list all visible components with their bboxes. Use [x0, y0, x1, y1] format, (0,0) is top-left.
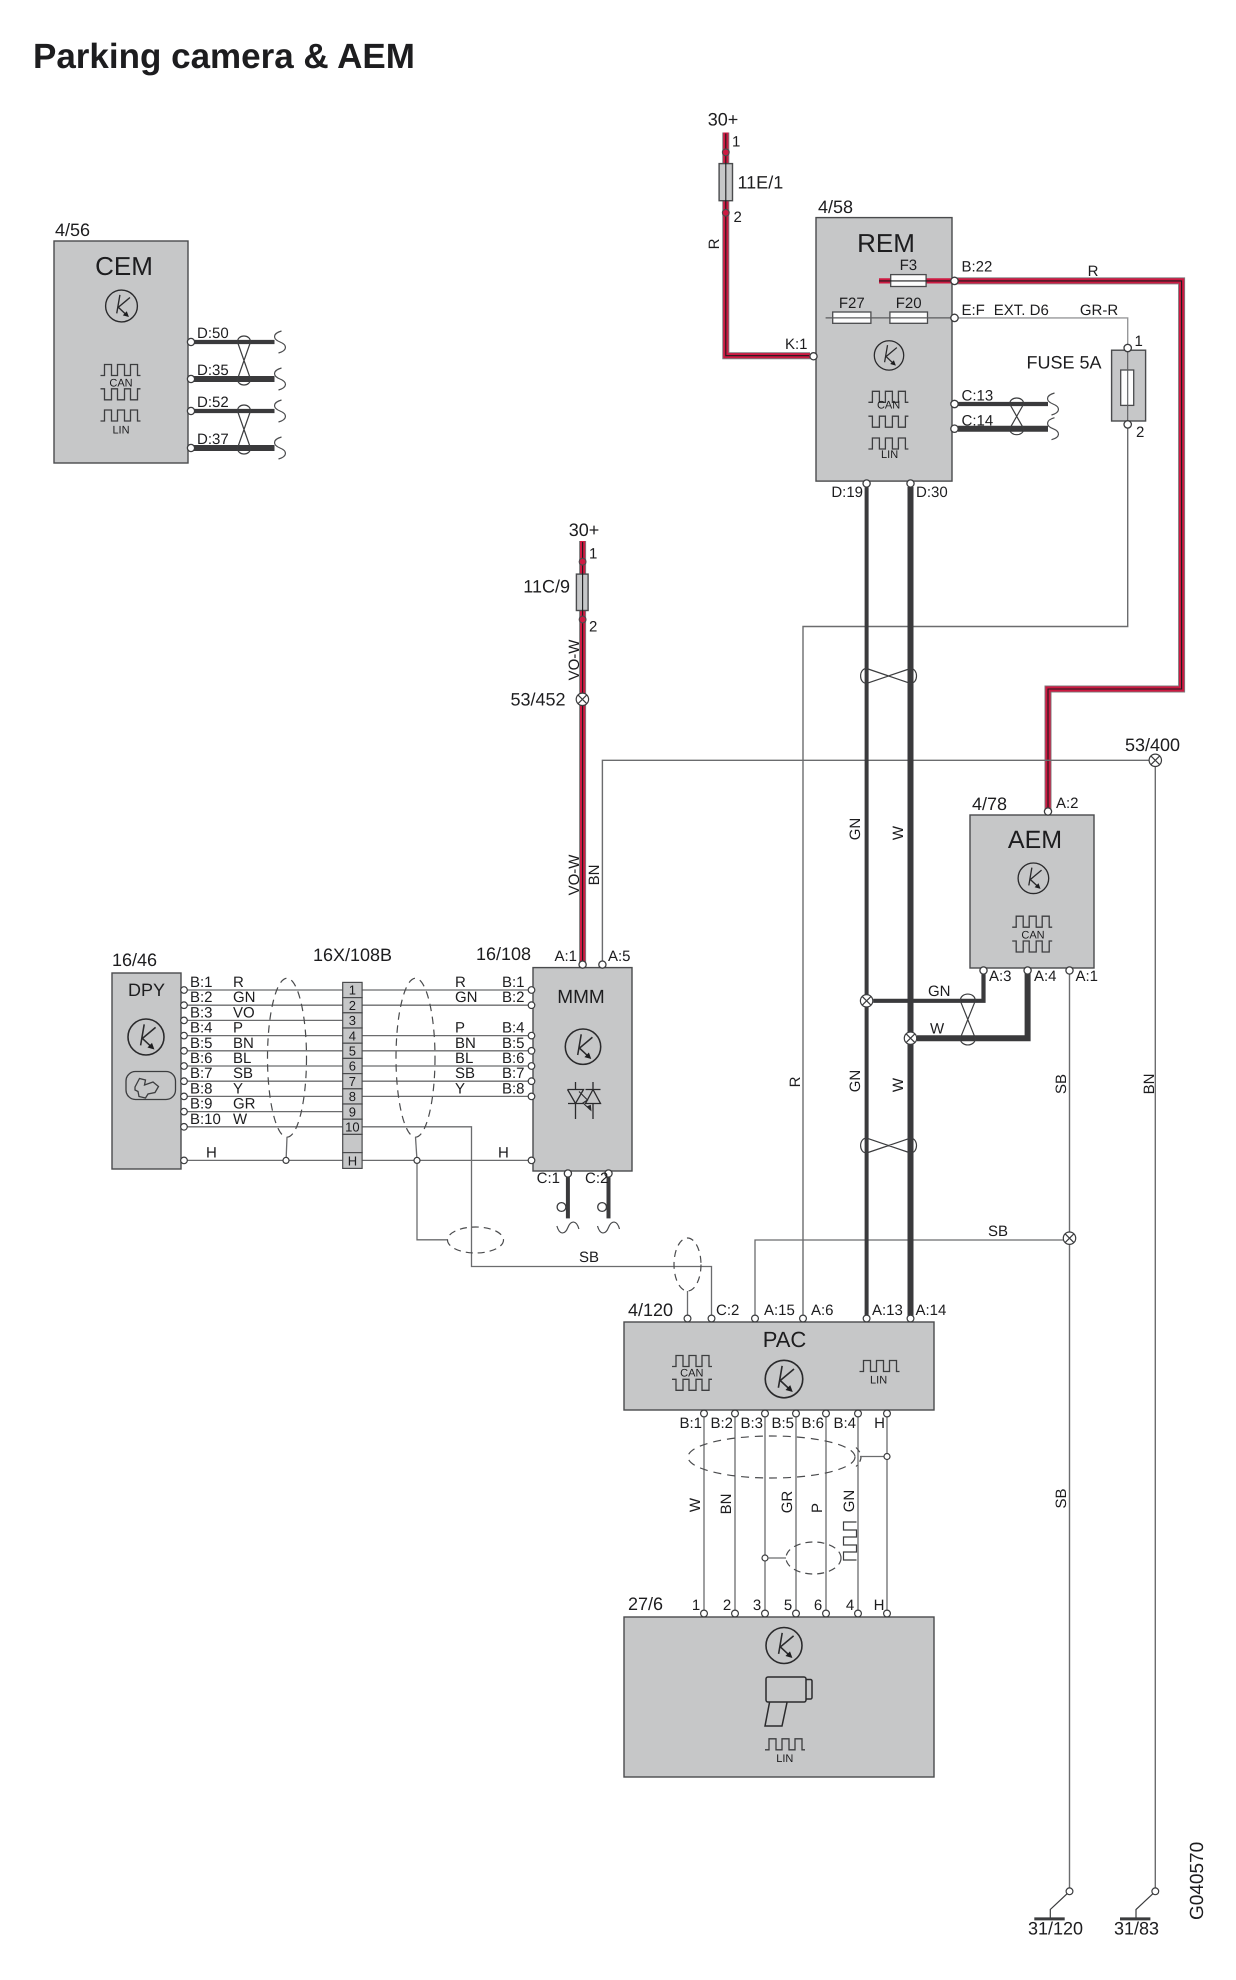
pin camera 5: [793, 1610, 800, 1617]
svg-text:R: R: [706, 238, 723, 249]
pin MMM C:1: [564, 1170, 571, 1177]
pin camera H: [884, 1610, 891, 1617]
pin camera 4: [855, 1610, 862, 1617]
pin camera 3: [762, 1610, 769, 1617]
control unit REM 4/58 box: [816, 218, 952, 482]
svg-text:B:2: B:2: [710, 1415, 733, 1432]
pin PAC B:1: [701, 1410, 708, 1417]
ground symbol 31/83: [1120, 1917, 1150, 1920]
parking camera control module PAC 4/120 box: [624, 1322, 934, 1410]
twisted-pair symbol GN/W (lower): [861, 1138, 917, 1153]
junction shield to H (right): [414, 1157, 420, 1163]
svg-text:4: 4: [846, 1597, 854, 1614]
cut mark C:1: [557, 1222, 579, 1233]
CEM control-unit symbol K: [106, 290, 138, 322]
pin REM C:14: [951, 425, 958, 432]
cut mark C:2: [598, 1222, 620, 1233]
pin 2 of fuse 11C/9 (red dot): [579, 616, 586, 623]
REM CAN waveform lower: [868, 416, 908, 427]
svg-text:B:3: B:3: [740, 1415, 763, 1432]
svg-text:3: 3: [753, 1597, 761, 1614]
svg-text:VO-W: VO-W: [566, 854, 583, 896]
pin PAC B:4: [855, 1410, 862, 1417]
wire DPY B:5 (BN) to connector 16X/108B: [187, 1050, 343, 1052]
svg-text:2: 2: [349, 998, 356, 1013]
svg-text:H: H: [348, 1153, 357, 1168]
svg-text:6: 6: [349, 1059, 356, 1074]
pin PAC A:13: [863, 1315, 870, 1322]
svg-text:F27: F27: [839, 295, 865, 312]
svg-text:4/78: 4/78: [972, 794, 1007, 814]
pin MMM B:7: [528, 1078, 535, 1085]
svg-text:AEM: AEM: [1008, 826, 1062, 854]
fuse F27 body: [833, 312, 871, 323]
wire H: DPY to 16X/108B to MMM: [187, 1159, 533, 1161]
wire DPY B:3 (VO) to connector 16X/108B: [187, 1019, 343, 1021]
pin PAC B:6: [823, 1410, 830, 1417]
wire DPY B:9 (GR) to connector 16X/108B: [187, 1111, 343, 1113]
wire core line through 11C/9 branch: [582, 542, 584, 962]
svg-text:A:2: A:2: [1056, 795, 1079, 812]
svg-text:FUSE 5A: FUSE 5A: [1027, 353, 1102, 373]
pin PAC H: [884, 1410, 891, 1417]
fuse F20 body: [890, 312, 928, 323]
wire PAC H to camera pin H: [886, 1413, 888, 1614]
twisted-pair symbol GN/W (upper): [861, 669, 917, 684]
svg-text:LIN: LIN: [881, 449, 898, 461]
audio module AEM 4/78 box: [970, 815, 1094, 968]
svg-text:2: 2: [734, 209, 742, 226]
svg-text:GN: GN: [847, 1070, 864, 1093]
wire H shield drain to grommet: [417, 1164, 448, 1240]
svg-text:C:13: C:13: [962, 388, 994, 405]
wire W trunk: REM D:30 to PAC A:14: [908, 487, 914, 1318]
svg-text:LIN: LIN: [870, 1375, 887, 1387]
svg-text:F20: F20: [896, 295, 922, 312]
svg-text:H: H: [498, 1144, 509, 1161]
svg-text:EXT. D6: EXT. D6: [994, 302, 1049, 319]
svg-text:2: 2: [589, 619, 597, 636]
shield drain tail (left): [285, 1137, 288, 1157]
control unit CEM 4/56 box: [54, 241, 188, 463]
svg-text:SB: SB: [1053, 1074, 1070, 1094]
fuse element line through F27 and F20: [826, 317, 954, 319]
svg-text:W: W: [930, 1021, 945, 1038]
wire EXT.D6 GR-R: REM E:F to FUSE 5A pin 1: [826, 318, 1128, 345]
svg-text:W: W: [233, 1111, 248, 1128]
pin MMM B:8: [528, 1093, 535, 1100]
cable shield around MMM harness: [396, 978, 435, 1137]
LIN waveform marker on B:4 wire: [844, 1522, 857, 1560]
svg-text:D:37: D:37: [197, 431, 229, 448]
fuse FUSE 5A center line: [1127, 351, 1129, 423]
svg-text:LIN: LIN: [112, 425, 129, 437]
wire 16X/108B to MMM B:7 (SB): [362, 1080, 533, 1082]
REM control-unit symbol K: [874, 341, 903, 370]
svg-text:B:22: B:22: [962, 259, 993, 276]
wire CEM D:35 twisted pair: [194, 376, 275, 382]
svg-text:BN: BN: [586, 865, 603, 886]
pin REM B:22: [951, 277, 958, 284]
svg-text:GN: GN: [847, 818, 864, 841]
display unit DPY 16/46 box: [112, 973, 181, 1169]
camera control-unit symbol K: [766, 1628, 802, 1664]
pin DPY B:4: [181, 1032, 188, 1039]
MMM control-unit symbol K: [565, 1029, 600, 1064]
pin camera 1: [701, 1610, 708, 1617]
AEM CAN waveform upper: [1012, 916, 1052, 927]
wire DPY B:7 (SB) to connector 16X/108B: [187, 1080, 343, 1082]
cut mark D:35: [275, 368, 286, 390]
twisted-pair symbol D:50/D:35: [238, 336, 251, 385]
wire BN: 53/400 down to ground 31/83: [1154, 767, 1156, 1889]
svg-text:2: 2: [723, 1597, 731, 1614]
multimedia module MMM 16/108 box: [533, 968, 632, 1171]
camera icon: [765, 1677, 812, 1726]
svg-text:E:F: E:F: [962, 302, 985, 319]
svg-text:Y: Y: [455, 1080, 465, 1097]
pin 1 of fuse 11E/1 (red dot): [722, 149, 729, 156]
wire core line B:22 to A:2: [956, 281, 1182, 810]
svg-text:11E/1: 11E/1: [738, 173, 784, 193]
pin DPY B:2: [181, 1002, 188, 1009]
node 53/400 connector: [1149, 754, 1161, 766]
svg-text:A:6: A:6: [811, 1302, 834, 1319]
svg-text:P: P: [809, 1503, 826, 1513]
svg-text:3: 3: [349, 1013, 356, 1028]
REM LIN waveform: [868, 438, 908, 449]
svg-text:CAN: CAN: [877, 399, 900, 411]
junction B:3 shield drain: [762, 1555, 768, 1561]
ground terminal circle 31/120: [1066, 1888, 1073, 1895]
svg-text:B:6: B:6: [801, 1415, 824, 1432]
svg-text:B:5: B:5: [771, 1415, 794, 1432]
coax stub MMM C:1: [566, 1176, 570, 1218]
svg-text:CAN: CAN: [680, 1368, 703, 1380]
grommet on SB wire near PAC (vertical): [674, 1238, 701, 1291]
wire B:3 drain to pair shield: [768, 1557, 786, 1559]
svg-text:BN: BN: [1141, 1074, 1158, 1095]
REM CAN waveform upper: [868, 391, 908, 402]
svg-text:B:10: B:10: [190, 1111, 221, 1128]
wire PAC B:5 to camera pin 5: [795, 1413, 797, 1614]
svg-text:SB: SB: [988, 1223, 1008, 1240]
twisted-pair symbol C:13/C:14: [1010, 398, 1024, 435]
svg-text:4: 4: [349, 1028, 356, 1043]
svg-text:A:4: A:4: [1034, 968, 1057, 985]
svg-text:2: 2: [1136, 424, 1144, 441]
pin DPY B:3: [181, 1017, 188, 1024]
wire DPY B:4 (P) to connector 16X/108B: [187, 1035, 343, 1037]
pin REM C:13: [951, 400, 958, 407]
pin MMM A:5: [599, 961, 606, 968]
wire SB: junction down to ground 31/120: [1069, 1244, 1071, 1888]
pin REM D:19: [863, 480, 870, 487]
svg-text:K:1: K:1: [785, 336, 808, 353]
svg-text:6: 6: [814, 1597, 822, 1614]
svg-text:B:1: B:1: [679, 1415, 702, 1432]
CEM CAN waveform upper: [101, 365, 141, 376]
svg-text:53/400: 53/400: [1125, 735, 1180, 755]
cut mark D:52: [275, 400, 286, 422]
grommet on SB wire (horizontal): [448, 1227, 504, 1253]
svg-text:GR-R: GR-R: [1080, 302, 1118, 319]
wire PAC B:2 to camera pin 2: [734, 1413, 736, 1614]
pin DPY B:10: [181, 1124, 188, 1131]
wire CEM D:52 twisted pair: [194, 409, 275, 413]
pin PAC B:5: [793, 1410, 800, 1417]
wire R: FUSE 5A pin 2 down, across, down to PAC A:6: [803, 428, 1128, 1316]
PAC LIN waveform: [860, 1361, 900, 1372]
svg-text:GN: GN: [455, 989, 478, 1006]
svg-text:A:3: A:3: [989, 968, 1012, 985]
pin camera 6: [823, 1610, 830, 1617]
svg-text:9: 9: [349, 1104, 356, 1119]
wire CEM D:37 twisted pair: [194, 445, 275, 451]
cut mark D:50: [275, 331, 286, 353]
svg-text:A:14: A:14: [916, 1302, 947, 1319]
cut mark D:37: [275, 437, 286, 459]
pin DPY B:8: [181, 1093, 188, 1100]
junction sheath drain / H wire: [884, 1454, 890, 1460]
svg-text:Parking camera & AEM: Parking camera & AEM: [33, 37, 415, 76]
fuse F3 body: [891, 275, 926, 287]
pin CEM D:37: [187, 444, 194, 451]
svg-text:LIN: LIN: [776, 1753, 793, 1765]
svg-text:PAC: PAC: [763, 1327, 807, 1352]
pin MMM H: [528, 1157, 535, 1164]
pin 1 of fuse 11C/9 (red dot): [579, 558, 586, 565]
svg-text:D:35: D:35: [197, 362, 229, 379]
wire 16X/108B to MMM B:2 (GN): [362, 1004, 533, 1006]
coax stub MMM C:2: [607, 1176, 611, 1218]
camera LIN waveform: [765, 1739, 805, 1750]
wire REM C:14 twisted pair: [958, 426, 1048, 432]
wire 30+ feed through fuse 11C/9 to MMM A:1 (red): [579, 541, 586, 963]
pin MMM A:1: [579, 961, 586, 968]
svg-text:MMM: MMM: [557, 987, 604, 1008]
cable sheath around camera harness: [688, 1436, 855, 1478]
pin PAC A:15: [752, 1315, 759, 1322]
wire CEM D:50 twisted pair: [194, 340, 275, 344]
wire PAC B:6 to camera pin 6: [825, 1413, 827, 1614]
pin DPY B:1: [181, 987, 188, 994]
wire 16X/108B to MMM B:5 (BN): [362, 1050, 533, 1052]
svg-text:W: W: [890, 825, 907, 840]
svg-text:GN: GN: [928, 983, 951, 1000]
svg-text:A:15: A:15: [764, 1302, 795, 1319]
AEM control-unit symbol K: [1018, 863, 1049, 894]
svg-text:B:2: B:2: [502, 989, 525, 1006]
svg-text:CEM: CEM: [95, 251, 153, 281]
wire core line through 11E/1 branch: [726, 134, 809, 356]
wire sheath drain to H: [860, 1456, 884, 1458]
svg-text:DPY: DPY: [128, 980, 165, 1000]
pin AEM A:4: [1024, 967, 1031, 974]
svg-text:H: H: [206, 1144, 217, 1161]
wire DPY B:2 (GN) to connector 16X/108B: [187, 1004, 343, 1006]
svg-text:G040570: G040570: [1187, 1842, 1208, 1920]
pin CEM D:50: [187, 338, 194, 345]
wire SB: connector cell 10 down and across to PAC C:2: [362, 1127, 711, 1316]
svg-text:SB: SB: [1053, 1488, 1070, 1508]
PAC CAN waveform lower: [672, 1379, 712, 1390]
CEM LIN waveform: [101, 410, 141, 421]
cut mark C:13: [1048, 393, 1059, 415]
pin 2 of fuse 11E/1 (red dot): [722, 209, 729, 216]
svg-text:W: W: [687, 1497, 704, 1512]
pin PAC shield: [684, 1315, 691, 1322]
pin camera 2: [732, 1610, 739, 1617]
junction SB (A:15 run joins A:1 drop): [1063, 1232, 1075, 1244]
svg-text:F3: F3: [900, 257, 918, 274]
wire DPY B:8 (Y) to connector 16X/108B: [187, 1095, 343, 1097]
connector 16X/108B strip: [343, 982, 362, 1168]
svg-text:10: 10: [345, 1120, 359, 1135]
wire SB: AEM A:1 down to junction: [1069, 970, 1071, 1232]
svg-text:30+: 30+: [708, 110, 739, 130]
svg-text:A:1: A:1: [1076, 968, 1099, 985]
wire DPY B:10 (W) to connector 16X/108B: [187, 1126, 343, 1128]
svg-text:7: 7: [349, 1074, 356, 1089]
shield drain tail (right): [416, 1137, 417, 1157]
svg-text:R: R: [787, 1076, 804, 1087]
pin PAC B:2: [732, 1410, 739, 1417]
wire 16X/108B to MMM B:6 (BL): [362, 1065, 533, 1067]
wire SB: PAC A:15 up and across to SB junction: [755, 1240, 1064, 1316]
svg-text:4/58: 4/58: [818, 197, 853, 217]
PAC CAN waveform upper: [672, 1356, 712, 1367]
svg-text:VO-W: VO-W: [566, 639, 583, 681]
pin REM D:30: [907, 480, 914, 487]
wire 30+ feed through fuse 11E/1 to REM K:1 (red): [726, 133, 810, 356]
wire GN: AEM A:3 to GN trunk junction: [873, 972, 983, 1001]
pin MMM C:2: [605, 1170, 612, 1177]
MMM thyristor symbol: [568, 1082, 601, 1119]
pin CEM D:35: [187, 375, 194, 382]
ground terminal circle 31/83: [1152, 1888, 1159, 1895]
AEM CAN waveform lower: [1012, 941, 1052, 952]
DPY display icon: [126, 1072, 176, 1100]
svg-text:27/6: 27/6: [628, 1594, 663, 1614]
coax connector ring C:2: [598, 1203, 607, 1212]
node 53/452 connector: [576, 693, 588, 705]
svg-text:16/46: 16/46: [112, 950, 157, 970]
ground symbol 31/120: [1034, 1917, 1064, 1920]
pin REM E:F: [951, 314, 958, 321]
pin 2 of FUSE 5A: [1124, 421, 1131, 428]
svg-text:CAN: CAN: [109, 377, 132, 389]
wire R: REM F3 to B:22 across and down to AEM A:2 (red): [879, 281, 1182, 810]
pin MMM B:6: [528, 1063, 535, 1070]
pin AEM A:3: [980, 967, 987, 974]
svg-text:1: 1: [589, 546, 597, 563]
wire 16X/108B to MMM B:8 (Y): [362, 1095, 533, 1097]
pin AEM A:2: [1044, 808, 1051, 815]
svg-text:11C/9: 11C/9: [523, 577, 570, 597]
svg-text:1: 1: [692, 1597, 700, 1614]
svg-text:4/120: 4/120: [628, 1300, 673, 1320]
wire DPY B:6 (BL) to connector 16X/108B: [187, 1065, 343, 1067]
wire PAC B:3 to camera pin 3: [764, 1413, 766, 1614]
svg-text:1: 1: [732, 134, 740, 151]
wire DPY B:1 (R) to connector 16X/108B: [187, 989, 343, 991]
svg-text:16X/108B: 16X/108B: [313, 945, 392, 965]
junction GN trunk / AEM A:3: [860, 995, 872, 1007]
pin MMM B:5: [528, 1048, 535, 1055]
svg-text:53/452: 53/452: [510, 690, 565, 710]
pin DPY H: [181, 1157, 188, 1164]
PAC control-unit symbol K: [765, 1360, 803, 1398]
pin PAC A:6: [800, 1315, 807, 1322]
svg-text:8: 8: [349, 1089, 356, 1104]
wire GN trunk: REM D:19 to PAC A:13: [865, 487, 869, 1318]
svg-text:31/83: 31/83: [1114, 1919, 1159, 1939]
svg-text:D:19: D:19: [831, 484, 863, 501]
cut mark C:14: [1048, 418, 1059, 440]
svg-text:4/56: 4/56: [55, 220, 90, 240]
twisted-pair symbol D:52/D:37: [238, 405, 251, 454]
svg-text:D:52: D:52: [197, 394, 229, 411]
DPY control-unit symbol K: [128, 1019, 164, 1055]
fuse FUSE 5A outer body: [1112, 350, 1146, 421]
pin MMM B:1 (redraw on box edge): [528, 987, 535, 994]
pin MMM B:2: [528, 1002, 535, 1009]
svg-text:R: R: [1088, 263, 1099, 280]
svg-text:A:5: A:5: [608, 948, 631, 965]
pin PAC B:3: [762, 1410, 769, 1417]
wire 16X/108B to MMM B:1 (R): [362, 989, 533, 991]
cable sheath tail: [856, 1448, 861, 1467]
svg-text:W: W: [890, 1077, 907, 1092]
wire REM C:13 twisted pair: [958, 402, 1048, 406]
svg-text:GN: GN: [841, 1490, 858, 1513]
grommet tail to PAC shield pin: [687, 1291, 689, 1315]
svg-text:BN: BN: [718, 1494, 735, 1515]
svg-text:1: 1: [349, 983, 356, 998]
pin 1 of FUSE 5A: [1124, 344, 1131, 351]
wire BN: MMM A:5 up and across to 53/400: [602, 760, 1149, 961]
pin DPY B:9: [181, 1108, 188, 1115]
svg-text:B:4: B:4: [833, 1415, 856, 1432]
wire PAC B:4 to camera pin 4: [857, 1413, 859, 1614]
ground lead 31/83: [1136, 1894, 1153, 1918]
pin DPY B:6: [181, 1063, 188, 1070]
pin MMM B:4: [528, 1032, 535, 1039]
svg-text:CAN: CAN: [1021, 930, 1044, 942]
wire 16X/108B to MMM B:4 (P): [362, 1035, 533, 1037]
junction W trunk / AEM A:4: [904, 1032, 916, 1044]
pin PAC A:14: [907, 1315, 914, 1322]
junction shield to H (left): [283, 1157, 289, 1163]
wire W: AEM A:4 to W trunk junction: [917, 972, 1028, 1038]
shield around video pair B:5/B:6: [786, 1542, 841, 1574]
svg-text:1: 1: [1135, 333, 1143, 350]
svg-text:D:50: D:50: [197, 325, 229, 342]
wire PAC B:1 to camera pin 1: [703, 1413, 705, 1614]
svg-text:H: H: [874, 1415, 885, 1432]
svg-text:A:13: A:13: [872, 1302, 903, 1319]
svg-text:C:2: C:2: [585, 1170, 608, 1187]
pin DPY B:5: [181, 1048, 188, 1055]
fuse F3 element line: [879, 280, 954, 282]
pin PAC C:2: [708, 1315, 715, 1322]
svg-text:SB: SB: [579, 1249, 599, 1266]
svg-text:C:2: C:2: [716, 1302, 739, 1319]
svg-text:REM: REM: [857, 228, 915, 258]
coax connector ring C:1: [557, 1203, 566, 1212]
parking camera 27/6 box: [624, 1617, 934, 1777]
